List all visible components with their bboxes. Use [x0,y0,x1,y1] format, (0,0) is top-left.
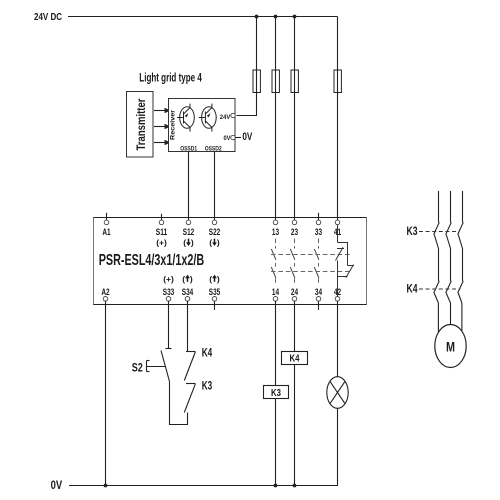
terminal 34 [315,287,323,310]
svg-text:K3: K3 [407,226,418,238]
wire: lamp to 0V rail [337,408,339,485]
junction node: K3 coil to 0V rail [274,484,278,488]
light beam arrow 1 [154,108,171,114]
wire: receiver 0V stub [235,137,241,139]
svg-text:Transmitter: Transmitter [134,98,148,150]
3-phase supply line L1 [438,191,440,223]
terminal 24 [291,287,299,301]
transmitter box [127,92,154,158]
svg-text:24V: 24V [220,114,231,121]
terminal S33 [163,274,174,301]
svg-text:23: 23 [291,227,298,238]
junction node: K4 coil to 0V rail [293,484,297,488]
svg-text:24V DC: 24V DC [34,12,62,23]
safety relay U1 box [94,218,367,305]
svg-text:OSSD1: OSSD1 [180,145,197,152]
contactor K3 actuation dashed link [419,231,459,233]
wire: coil K3 to 0V rail [275,399,277,486]
wire: A2 to 0V rail [105,301,107,486]
3-phase supply line L2 [450,191,452,223]
contactor K3 main contact pole 1 [434,222,440,281]
dashed actuation link row 2 [271,271,352,273]
terminal 42 [334,287,341,301]
svg-text:Light grid type 4: Light grid type 4 [139,70,202,84]
terminal 33 [315,213,322,238]
light beam arrow 2 [154,124,171,130]
wire: fuse F3 to terminal 23 [294,93,296,221]
wire: fuse F4 to terminal 41 [337,93,339,221]
wire: supply branch down to fuse F2 [275,17,277,71]
fuse F2 (terminal 13 branch) [272,70,279,93]
svg-text:S2: S2 [132,360,143,374]
fuse F3 (terminal 23 branch) [291,70,298,93]
terminal S35 [209,274,221,310]
wire: reset branch lower [170,382,188,425]
indicator lamp H1 [327,377,348,409]
svg-text:33: 33 [315,227,322,238]
wire: S33 to reset button [168,301,170,349]
terminal 23 [291,220,298,238]
wire: terminal 42 to lamp [337,301,339,377]
fuse F4 (terminal 41 branch) [334,70,341,93]
fuse F1 (light grid supply) [253,70,260,93]
NC contact K3 (feedback) [184,384,195,413]
transistor Q2 (OSSD2 output) [199,104,216,132]
contactor K4 main contact pole 2 [446,281,452,325]
terminal S11 [156,214,168,248]
terminal S34 [182,274,194,301]
svg-text:PSR-ESL4/3x1/1x2/B: PSR-ESL4/3x1/1x2/B [99,252,205,269]
terminal S12 [183,220,194,247]
svg-text:A1: A1 [102,227,111,238]
wire: supply branch down to fuse F3 [294,17,296,71]
svg-text:S35: S35 [209,287,221,298]
light beam arrow 3 [154,140,171,146]
wire: S34 to feedback contacts [187,301,189,352]
contactor K4 actuation dashed link [419,288,461,290]
contactor K4 main contact pole 1 [434,281,440,332]
contactor K3 main contact pole 2 [446,222,452,281]
3-phase supply line L3 [462,191,464,223]
junction node: rail to terminal 13 branch [274,15,278,19]
terminal A2 [101,287,109,301]
svg-text:14: 14 [272,287,280,298]
NC contact K4 (feedback) [184,352,195,381]
svg-text:(+): (+) [163,274,174,284]
relay NC contact chain 41-42 [336,225,355,297]
dashed actuation link row 1 [271,254,352,256]
svg-text:K4: K4 [290,353,300,365]
24V DC rail wire [68,16,338,18]
receiver box [169,99,236,152]
svg-text:24: 24 [291,287,299,298]
wire: terminal 14 to coil K3 [275,301,277,386]
junction node: A2 to 0V rail [104,484,108,488]
motor M [435,325,466,368]
wire: rail corner down to fuse F4 [337,17,339,71]
wire: OSSD2 to terminal S22 [214,152,216,221]
relay NO contact 23-24 [290,239,295,286]
junction node: rail to terminal 23 branch [293,15,297,19]
terminal A1 [102,213,111,238]
svg-text:K4: K4 [202,348,213,360]
receiver 24V terminal [220,113,235,121]
junction node: rail to light-grid branch [255,15,259,19]
svg-text:34: 34 [315,287,323,298]
receiver 0V terminal [224,135,236,142]
svg-text:S33: S33 [163,287,174,298]
contactor coil K4 [282,352,308,365]
svg-text:OSSD2: OSSD2 [205,145,222,152]
svg-text:(+): (+) [156,237,167,247]
contactor coil K3 [264,386,289,400]
terminal 14 [272,287,280,301]
terminal 13 [272,220,279,238]
terminal S22 [209,220,220,247]
wire: terminal 24 to coil K4 [294,301,296,352]
wire: fuse F2 to terminal 13 [275,93,277,221]
svg-text:M: M [446,338,455,354]
wire: fuse F1 to light grid 24V input [237,93,257,116]
svg-text:Receiver: Receiver [170,109,177,140]
svg-text:0V: 0V [242,131,252,143]
svg-text:K4: K4 [407,283,418,295]
relay NO contact 13-14 [271,239,276,286]
svg-text:0V: 0V [224,135,231,142]
wire: coil K4 to 0V rail [294,365,296,486]
wire: supply branch down to fuse F1 [256,17,258,71]
wire: OSSD1 to terminal S12 [188,152,190,221]
terminal 41 [334,220,342,238]
svg-text:13: 13 [272,227,279,238]
svg-text:K3: K3 [202,381,213,393]
contactor K3 main contact pole 3 [458,222,464,281]
contactor K4 main contact pole 3 [458,281,464,332]
svg-text:K3: K3 [271,387,281,399]
svg-text:0V: 0V [51,480,63,492]
0V rail wire [69,485,338,487]
svg-text:A2: A2 [101,287,109,298]
relay NO contact 33-34 [314,239,319,286]
transistor Q1 (OSSD1 output) [177,104,194,132]
reset button S2 [132,349,172,382]
svg-text:S34: S34 [182,287,194,298]
